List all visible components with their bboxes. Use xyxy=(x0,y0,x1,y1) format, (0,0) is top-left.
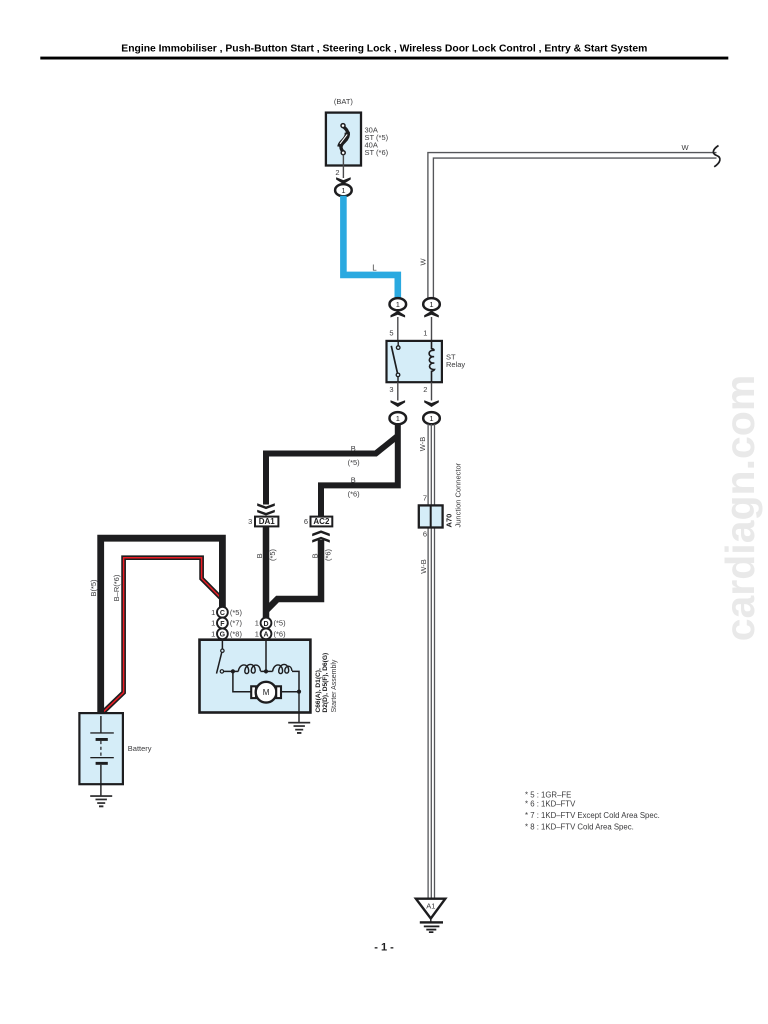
wire label B (+6) xyxy=(348,476,361,499)
chevron arrows into DA1 xyxy=(257,503,275,509)
pin labels for C F G xyxy=(211,608,215,639)
svg-text:B: B xyxy=(351,476,356,485)
starter wire coil to corner xyxy=(292,671,299,691)
svg-text:2: 2 xyxy=(423,385,427,394)
wire W double line to page break xyxy=(428,153,717,299)
svg-text:* 5 : 1GR–FE: * 5 : 1GR–FE xyxy=(525,790,571,799)
svg-text:* 6 : 1KD–FTV: * 6 : 1KD–FTV xyxy=(525,800,576,809)
connector 1 below fuse xyxy=(335,184,352,196)
starter node dot left xyxy=(231,669,235,673)
svg-text:ST (*6): ST (*6) xyxy=(365,148,389,157)
junction connector A70 box xyxy=(419,505,443,527)
wire B(+6) below AC2 to starter A xyxy=(266,540,321,611)
svg-text:3: 3 xyxy=(389,385,393,394)
svg-text:B: B xyxy=(255,553,264,558)
svg-text:Relay: Relay xyxy=(446,360,465,369)
starter wire between coils xyxy=(260,670,272,672)
starter wire node to motor left xyxy=(233,671,251,691)
wire L (blue) xyxy=(343,196,397,299)
ST relay box xyxy=(387,341,442,382)
wire B-R red core xyxy=(102,558,220,714)
starter node dot centre xyxy=(264,669,268,673)
wire B-R(+6) black/red sandwich xyxy=(101,558,221,715)
fuse element glyph xyxy=(340,124,348,155)
fuse value labels 30A ST xyxy=(365,126,389,158)
svg-text:(*6): (*6) xyxy=(348,489,361,498)
arrow into connector below pin 3 xyxy=(391,400,406,407)
svg-text:B: B xyxy=(351,444,356,453)
svg-text:6: 6 xyxy=(423,530,427,539)
arrow into connector (pin1 side) xyxy=(424,311,439,318)
motor right brush xyxy=(276,686,281,698)
starter hold-in coil xyxy=(238,664,260,673)
page break symbol xyxy=(713,146,720,167)
battery dashed link xyxy=(100,741,102,757)
connector 1 below pin 2 xyxy=(423,412,440,424)
svg-text:3: 3 xyxy=(248,517,252,526)
connector 1 above relay pin 1 xyxy=(423,298,440,310)
wire from relay pin 2 xyxy=(431,382,433,400)
starter ground wire xyxy=(298,692,300,723)
svg-text:2: 2 xyxy=(335,168,339,177)
svg-text:A: A xyxy=(263,632,268,639)
svg-text:cardiagn.com: cardiagn.com xyxy=(717,375,763,642)
wire B(+5) battery to starter C xyxy=(101,538,223,716)
relay switch contact wire xyxy=(397,341,399,346)
svg-text:AC2: AC2 xyxy=(313,517,330,526)
relay coil xyxy=(429,341,434,382)
relay switch lower wire xyxy=(397,377,399,383)
starter assembly box xyxy=(200,640,311,713)
svg-text:F: F xyxy=(220,621,225,628)
ground symbol below battery xyxy=(90,795,112,807)
wire to relay pin 5 xyxy=(397,317,399,341)
chevron arrows into AC2 xyxy=(312,530,330,536)
svg-text:M: M xyxy=(263,688,270,697)
fuse pin 2 wire xyxy=(342,155,344,179)
svg-text:W-B: W-B xyxy=(419,559,428,573)
connector 1 above relay pin 5 xyxy=(390,298,407,310)
wire label B (+5) xyxy=(348,444,361,467)
svg-text:5: 5 xyxy=(389,329,393,338)
wire to relay pin 1 xyxy=(431,317,433,341)
battery box xyxy=(79,713,123,784)
svg-text:A70: A70 xyxy=(445,514,454,528)
starter wire motor to node right xyxy=(281,691,299,693)
svg-text:7: 7 xyxy=(423,493,427,502)
svg-text:B–R(*6): B–R(*6) xyxy=(112,574,121,601)
svg-text:(*7): (*7) xyxy=(230,619,243,628)
svg-text:D: D xyxy=(263,621,268,628)
svg-text:1: 1 xyxy=(211,630,215,639)
relay switch contacts xyxy=(396,346,400,350)
svg-text:W: W xyxy=(682,143,690,152)
starter pull-in coil xyxy=(273,664,292,673)
wire B branch to DA1 xyxy=(266,436,398,505)
battery cell 2 xyxy=(90,757,114,758)
title rule xyxy=(40,57,728,60)
junction connector divider xyxy=(430,505,432,527)
svg-text:Battery: Battery xyxy=(128,744,152,753)
svg-text:(*5): (*5) xyxy=(274,619,287,628)
svg-text:1: 1 xyxy=(255,619,259,628)
starter switch lower contact xyxy=(220,670,223,673)
svg-text:1: 1 xyxy=(211,608,215,617)
svg-text:(BAT): (BAT) xyxy=(334,97,354,106)
battery cell 1 xyxy=(90,732,114,733)
svg-text:1: 1 xyxy=(211,619,215,628)
svg-text:* 7 : 1KD–FTV Except Cold Area: * 7 : 1KD–FTV Except Cold Area Spec. xyxy=(525,811,660,820)
ground symbol A1 xyxy=(420,921,443,933)
svg-text:(*6): (*6) xyxy=(274,630,287,639)
starter wire from A down xyxy=(265,639,267,670)
ground symbol below starter xyxy=(288,722,310,734)
svg-text:(*5): (*5) xyxy=(268,548,277,561)
battery top terminal wire xyxy=(100,716,102,733)
connector DA1 box xyxy=(255,517,278,527)
wire from relay pin 3 xyxy=(397,382,399,400)
svg-text:C: C xyxy=(220,610,225,617)
svg-text:D2(D), D5(F), D6(G): D2(D), D5(F), D6(G) xyxy=(322,653,329,713)
svg-text:1: 1 xyxy=(423,329,427,338)
starter switch top contact xyxy=(221,649,224,652)
arrow into connector below pin 2 xyxy=(424,400,439,407)
connector circle D xyxy=(261,618,272,629)
motor left brush xyxy=(251,686,256,698)
wire B thick from relay pin3 to AC2 branch xyxy=(321,424,398,517)
connector AC2 box xyxy=(311,517,333,527)
connector circle A xyxy=(261,628,272,639)
connector circle G xyxy=(217,628,228,639)
svg-text:W: W xyxy=(418,258,427,266)
arrow into connector (pin5 side) xyxy=(391,311,406,318)
svg-text:(*6): (*6) xyxy=(324,548,333,561)
svg-text:A1: A1 xyxy=(426,902,435,911)
svg-text:* 8 : 1KD–FTV Cold Area Spec.: * 8 : 1KD–FTV Cold Area Spec. xyxy=(525,823,634,832)
battery bottom wire to ground xyxy=(100,765,102,796)
svg-text:L: L xyxy=(372,263,377,272)
starter wire contact to node xyxy=(224,670,239,672)
svg-text:B: B xyxy=(311,553,320,558)
svg-text:DA1: DA1 xyxy=(259,517,276,526)
fuse 30A/40A ST box xyxy=(326,113,361,166)
svg-text:(*5): (*5) xyxy=(230,608,243,617)
svg-text:- 1 -: - 1 - xyxy=(374,942,394,954)
ground point A1 triangle xyxy=(416,899,445,919)
svg-text:G: G xyxy=(220,632,226,639)
motor M xyxy=(256,682,277,703)
pin labels for D A xyxy=(255,619,259,639)
connector circle F xyxy=(217,618,228,629)
connector 1 below pin 3 xyxy=(390,412,407,424)
svg-text:(*5): (*5) xyxy=(348,458,361,467)
ground stem below A1 xyxy=(430,919,432,923)
wire W-B triple line from relay pin2 connector down xyxy=(428,424,434,898)
notes *5..*8 xyxy=(525,790,660,831)
starter node dot right xyxy=(297,690,301,694)
relay switch blade xyxy=(391,346,397,374)
svg-text:Engine Immobiliser , Push-Butt: Engine Immobiliser , Push-Button Start ,… xyxy=(121,44,647,55)
svg-text:1: 1 xyxy=(255,630,259,639)
connector circle C xyxy=(217,607,228,618)
starter switch blade xyxy=(217,653,222,674)
svg-text:B(*5): B(*5) xyxy=(89,579,98,597)
svg-text:Junction Connector: Junction Connector xyxy=(454,462,463,527)
svg-text:6: 6 xyxy=(304,517,308,526)
svg-text:Starter Assembly: Starter Assembly xyxy=(331,659,338,712)
svg-text:(*8): (*8) xyxy=(230,630,243,639)
wire B(+5) below DA1 to starter D xyxy=(263,526,270,617)
starter switch feed wire from G xyxy=(221,639,223,649)
arrow into connector below fuse xyxy=(336,177,351,184)
relay name label xyxy=(446,352,465,368)
svg-text:W-B: W-B xyxy=(418,437,427,451)
